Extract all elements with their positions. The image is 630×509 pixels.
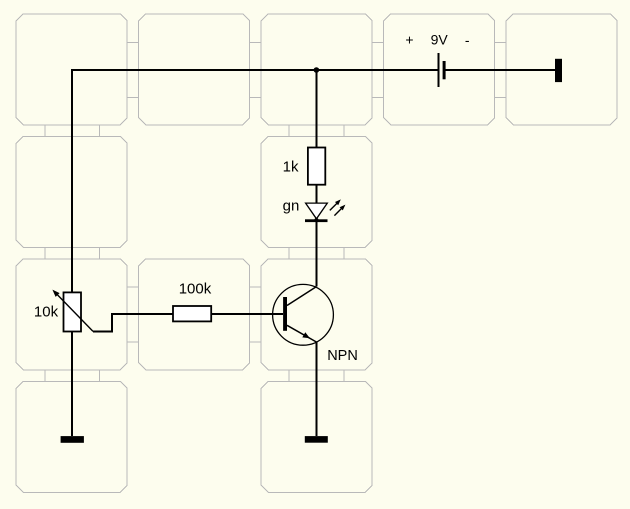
tab rungs row3 c1-c2 <box>127 287 139 342</box>
LED D1 triangle <box>306 203 328 219</box>
wire: battery - terminal to ground <box>446 69 555 71</box>
tab rungs col3 r3-r4 <box>289 370 344 382</box>
svg-text:1k: 1k <box>283 158 299 175</box>
tab rungs row1 c4-c5 <box>495 43 507 98</box>
wire: pot bottom to ground <box>71 332 73 437</box>
svg-text:gn: gn <box>283 197 300 214</box>
tile r2c3 <box>261 136 372 247</box>
battery B1 short thick plate (-) <box>443 61 446 79</box>
ground (below transistor, bar) <box>305 436 328 443</box>
transistor Q1 collector diagonal <box>287 287 316 306</box>
battery B1 9V long plate (+) <box>437 53 439 87</box>
node dot at LED cathode <box>314 218 318 222</box>
transistor Q1 emitter arrowhead <box>302 332 310 338</box>
LED light arrow 2 <box>334 208 341 215</box>
potentiometer P1 wiper diagonal <box>57 294 93 331</box>
LED light arrow 1 <box>330 203 337 210</box>
tab rungs row3 c2-c3 <box>250 287 262 342</box>
ground (below potentiometer, bar) <box>61 436 84 443</box>
potentiometer P1 body <box>64 292 82 331</box>
potentiometer P1 wiper arrowhead <box>52 290 59 297</box>
tab rungs col1 r3-r4 <box>45 370 100 382</box>
tile r1c2 <box>139 14 250 125</box>
tab rungs col1 r1-r2 <box>45 125 100 136</box>
node junction dot at top rail / collector branch <box>314 67 320 73</box>
tile r3c1 <box>16 259 127 370</box>
tab rungs col3 r1-r2 <box>289 125 344 136</box>
tile r2c1 <box>16 136 127 247</box>
transistor Q1 emitter diagonal <box>287 325 316 342</box>
svg-text:NPN: NPN <box>327 348 358 364</box>
wire: LED cathode to transistor collector <box>315 220 317 287</box>
wire: wiper step to resistor R2 <box>93 314 173 331</box>
wire: R2 to transistor base <box>211 313 283 315</box>
tab rungs col1 r2-r3 <box>45 247 100 259</box>
wire: top rail from battery + terminal to left corner, then down to potentiometer <box>72 70 438 292</box>
tile r1c5 <box>506 14 617 125</box>
tile r3c3 <box>261 259 372 370</box>
tab rungs row1 c2-c3 <box>250 43 262 98</box>
svg-text:100k: 100k <box>179 281 212 298</box>
tile r1c1 <box>16 14 127 125</box>
wire: R1 to LED anode <box>315 185 317 203</box>
tile r1c3 <box>261 14 372 125</box>
svg-text:-: - <box>465 32 470 48</box>
ground (top right, bar) <box>555 59 562 82</box>
resistor R1 1k body <box>308 148 325 185</box>
tile r1c4 <box>384 14 495 125</box>
tab rungs row1 c3-c4 <box>372 43 384 98</box>
wire: collector branch down to resistor R1 <box>315 70 317 148</box>
svg-text:10k: 10k <box>34 303 59 320</box>
transistor Q1 circle <box>273 284 334 345</box>
svg-text:9V: 9V <box>431 31 449 47</box>
svg-text:+: + <box>405 31 413 47</box>
transistor Q1 base bar <box>283 297 287 331</box>
tile r4c1 <box>16 381 127 492</box>
tab rungs col3 r2-r3 <box>289 247 344 259</box>
wire: emitter down to ground <box>315 342 317 436</box>
tab rungs row1 c1-c2 <box>127 43 139 98</box>
tile r3c2 <box>139 259 250 370</box>
resistor R2 100k body <box>173 306 211 321</box>
LED D1 cathode bar <box>305 219 328 222</box>
tile r4c3 <box>261 381 372 492</box>
